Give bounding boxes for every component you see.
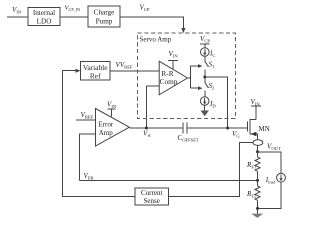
svg-text:Sense: Sense (144, 197, 160, 205)
svg-text:S2: S2 (209, 82, 216, 91)
wire Vout node to Iload branch (258, 152, 282, 174)
op-amp Error Amp (96, 109, 130, 147)
svg-text:RF1: RF1 (246, 161, 257, 170)
wire IC to S1 (204, 56, 206, 61)
svg-text:Error: Error (98, 121, 113, 129)
svg-text:VCP: VCP (140, 4, 150, 13)
wire Vin input lead (7, 16, 28, 18)
wire S1 to midpoint node (204, 69, 206, 77)
svg-text:VCP_IN: VCP_IN (65, 5, 81, 13)
transistor MN source lead (250, 134, 257, 140)
dashed box Servo Amp (138, 33, 236, 119)
wire VFB line from divider node to error amp (80, 179, 258, 181)
svg-text:Pump: Pump (96, 18, 113, 26)
wire VA node to COFFSET cap (129, 127, 182, 129)
switch S2 (205, 83, 208, 88)
block Variable Ref (81, 62, 111, 81)
svg-text:VREF: VREF (81, 111, 94, 120)
svg-text:VIN: VIN (251, 98, 261, 107)
ground symbol (257, 208, 259, 213)
svg-text:COFFSET: COFFSET (178, 134, 200, 143)
power rail VCP in servo box (200, 44, 210, 48)
svg-text:LDO: LDO (37, 18, 52, 26)
transistor MN source arrow (251, 132, 257, 137)
wire S2 to ID (204, 90, 206, 96)
wire R-R Comp lower input from node VA (146, 86, 159, 128)
node Vout (256, 150, 259, 153)
arrow S2 control (198, 86, 203, 90)
svg-text:IC: IC (209, 50, 215, 59)
resistor RF2 (257, 180, 259, 186)
wire midpoint to S2 (204, 77, 206, 82)
transistor MN channel bar (249, 119, 251, 134)
svg-text:VIN: VIN (12, 6, 22, 15)
wire feedback left loop: Current Sense to Variable Ref (63, 71, 136, 197)
wire Iload bottom to ground rail (258, 182, 282, 208)
node VG (226, 127, 229, 130)
comparator output bracket to switches (188, 66, 199, 88)
svg-text:Ref: Ref (90, 72, 101, 81)
svg-text:Internal: Internal (33, 9, 55, 17)
wire error amp VREF input (76, 119, 96, 121)
capacitor COFFSET (183, 122, 187, 133)
svg-text:RF2: RF2 (246, 190, 257, 199)
svg-text:Comp: Comp (160, 77, 178, 86)
resistor RF1 (257, 152, 259, 157)
ground arrow in servo box (201, 111, 209, 117)
current source ID (200, 97, 209, 106)
svg-text:VVREF: VVREF (116, 61, 134, 70)
power rail Vin at MOSFET (251, 105, 261, 107)
arrow S1 control (198, 64, 203, 68)
svg-text:Current: Current (141, 189, 162, 197)
arrow into Variable Ref (76, 69, 81, 73)
power stem Vin on Error Amp (107, 108, 115, 110)
transistor MN drain lead (250, 119, 256, 121)
svg-text:VIN: VIN (169, 50, 179, 59)
svg-text:MN: MN (259, 125, 270, 133)
transistor MN gate bar (246, 121, 248, 131)
block Charge Pump (88, 6, 120, 27)
node switch midpoint (203, 76, 206, 79)
svg-text:VIN: VIN (107, 101, 117, 110)
wire ID to ground arrow (204, 105, 206, 110)
svg-text:VG: VG (232, 130, 240, 139)
block Internal LDO (28, 8, 60, 26)
node FB divider (256, 179, 259, 182)
sense ellipse (253, 140, 263, 146)
svg-text:VOUT: VOUT (267, 143, 281, 152)
svg-text:Iload: Iload (265, 176, 276, 185)
svg-text:Charge: Charge (94, 9, 115, 17)
svg-text:Amp: Amp (99, 129, 114, 137)
wire error amp FB input (80, 134, 96, 180)
node ground rail (256, 207, 259, 210)
current source IC (201, 48, 210, 57)
wire error amp output to VA node (129, 127, 146, 129)
node VA (145, 127, 148, 130)
svg-text:VFB: VFB (84, 172, 94, 181)
power stem Vin on R-R Comp (168, 60, 178, 62)
wire LDO to Charge Pump (60, 16, 88, 18)
wire servo switch midpoint to VG node (205, 77, 228, 128)
svg-text:S1: S1 (209, 61, 216, 70)
wire sense ellipse tap to Current Sense box (169, 143, 254, 197)
block Current Sense (135, 188, 169, 205)
op-amp R-R Comp (159, 61, 187, 95)
svg-text:VCP: VCP (200, 35, 210, 44)
arrow into servo box top (181, 28, 185, 33)
svg-text:ID: ID (209, 100, 216, 109)
switch S1 (205, 61, 208, 66)
wire Charge Pump to Servo Amp top (120, 17, 183, 29)
wire COFFSET cap to gate VG (187, 127, 248, 129)
current source Iload (277, 173, 286, 182)
wire ellipse to Vout node (257, 145, 259, 151)
svg-text:Servo Amp: Servo Amp (140, 36, 172, 44)
svg-text:VA: VA (143, 130, 151, 139)
wire Variable Ref output to R-R Comp (110, 70, 159, 72)
